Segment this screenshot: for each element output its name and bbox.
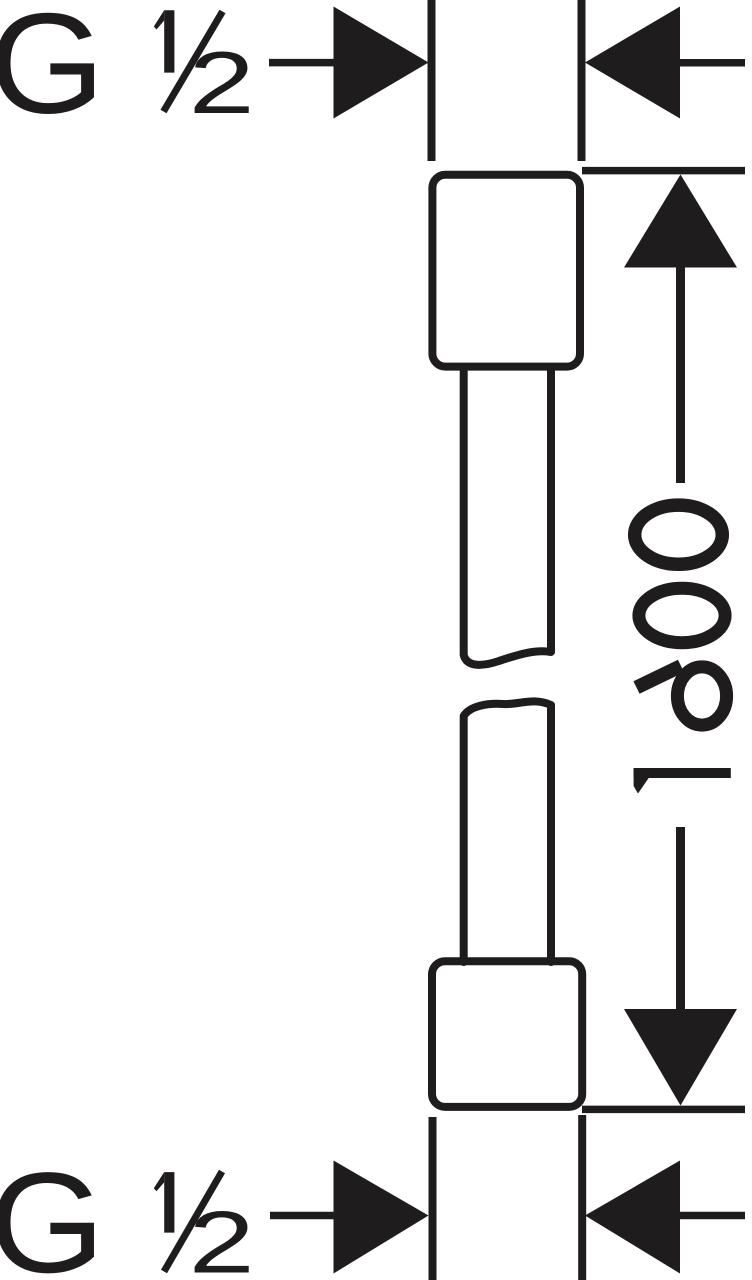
arrowhead 1600 bottom (points down) xyxy=(624,1009,737,1106)
arrowhead bottom-left (points right) xyxy=(334,1161,429,1274)
leader line bottom-right xyxy=(678,1212,745,1220)
fraction slash (top) xyxy=(164,12,223,112)
dimension text 1600 digit 6 (rotated, drawn) xyxy=(637,666,727,725)
leader line top-left xyxy=(269,59,336,67)
extension line top-right xyxy=(578,0,586,161)
leader line top-right xyxy=(678,59,745,67)
fraction 1/2 denominator (bottom) xyxy=(189,1193,255,1280)
dimension line 1600 vertical lower part xyxy=(676,827,685,1011)
svg-text:G: G xyxy=(0,1144,105,1280)
dimension line 1600 top horizontal xyxy=(582,167,745,175)
extension line bottom-left xyxy=(429,1117,437,1280)
extension line top-left xyxy=(428,0,436,161)
hose nut top (rounded rectangle) xyxy=(432,175,580,367)
arrowhead bottom-right (points left) xyxy=(585,1161,680,1274)
hose wall lower segment with break wave xyxy=(464,701,551,962)
fraction 1/2 numerator (top) xyxy=(154,10,175,72)
svg-text:2: 2 xyxy=(189,34,255,132)
dimension text 1600 digit 0 top (rotated, drawn) xyxy=(635,505,723,564)
arrowhead top-right (points left) xyxy=(585,7,680,119)
dimension text 1600 digit 1 (rotated, drawn) xyxy=(634,768,731,794)
extension line bottom-right xyxy=(578,1115,586,1280)
label G (bottom thread size) xyxy=(0,1144,105,1280)
dimension line 1600 vertical upper part xyxy=(676,266,685,483)
fraction slash (bottom) xyxy=(164,1172,222,1272)
hose wall upper segment with break wave xyxy=(464,369,551,665)
dimension text 1600 digit 0 (rotated, drawn) xyxy=(639,588,725,642)
svg-text:G: G xyxy=(0,0,105,144)
dimension line 1600 bottom horizontal xyxy=(582,1106,745,1114)
label G (top thread size) xyxy=(0,0,105,144)
hose nut bottom (rounded rectangle) xyxy=(432,961,582,1107)
svg-text:2: 2 xyxy=(189,1193,255,1280)
fraction 1/2 numerator (bottom) xyxy=(154,1172,175,1233)
arrowhead 1600 top (points up) xyxy=(624,175,737,268)
leader line bottom-left xyxy=(270,1212,336,1220)
fraction 1/2 denominator (top) xyxy=(189,34,255,132)
arrowhead top-left (points right) xyxy=(334,7,429,119)
